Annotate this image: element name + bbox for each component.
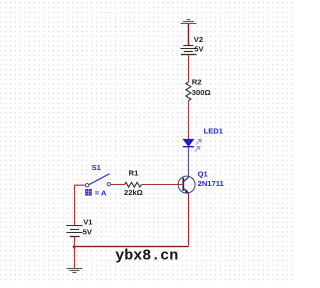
svg-text:22kΩ: 22kΩ [124, 188, 143, 197]
svg-text:= A: = A [95, 188, 107, 197]
resistor R2 [186, 82, 191, 101]
wire base: R1 to Q1 [142, 184, 184, 186]
svg-text:5V: 5V [83, 228, 93, 237]
wire V2 to R2 [188, 55, 190, 83]
battery V2 [180, 46, 196, 55]
svg-text:5V: 5V [194, 45, 204, 54]
svg-text:ybx8.cn: ybx8.cn [115, 247, 178, 264]
wire ground to V2 [187, 24, 190, 46]
wire bottom horizontal [75, 245, 189, 248]
key caption (Key = A) [85, 189, 92, 196]
svg-text:300Ω: 300Ω [192, 88, 211, 97]
wire switch left to V1 [75, 185, 86, 225]
svg-text:2N1711: 2N1711 [198, 179, 225, 188]
junction node [73, 245, 76, 248]
LED LED1 [183, 139, 202, 151]
ground (top, rotated 180) [181, 20, 197, 24]
battery V1 [66, 226, 82, 237]
switch S1 [85, 174, 110, 187]
svg-text:LED1: LED1 [204, 127, 224, 136]
svg-text:V1: V1 [83, 217, 93, 226]
svg-text:Q1: Q1 [198, 170, 209, 179]
wire switch to R1 [111, 184, 125, 186]
wire V1 to junction [74, 237, 76, 247]
wire LED1 to Q1 collector [188, 147, 190, 178]
svg-text:S1: S1 [92, 163, 102, 172]
svg-text:R2: R2 [192, 78, 202, 87]
svg-text:R1: R1 [129, 168, 139, 177]
wire Q1 emitter down [188, 193, 190, 247]
wire junction to ground [74, 247, 76, 269]
svg-text:V2: V2 [194, 35, 203, 44]
resistor R1 [125, 182, 142, 187]
wire R2 to LED1 [188, 101, 190, 140]
transistor Q1 (NPN 2N1711) [178, 176, 195, 193]
ground (bottom) [67, 269, 83, 273]
